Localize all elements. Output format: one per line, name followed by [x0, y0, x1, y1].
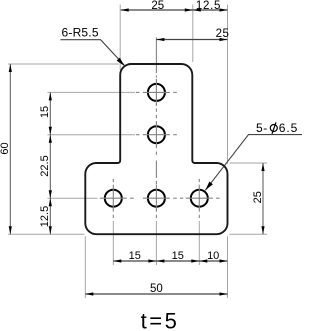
arrow left of 50 [85, 292, 93, 295]
dimension line right 25 [262, 163, 264, 234]
extension line part right edge (top dims) [227, 5, 229, 165]
extension line bottom hole1 down [112, 221, 114, 265]
arrow left of top 12.5 [193, 8, 201, 11]
diameter symbol slash [272, 122, 276, 134]
dimension chain left 15 / 22.5 / 12.5 [49, 92, 51, 234]
dimension line 60 left [9, 64, 11, 234]
dimension line top 25 and 12.5 [121, 9, 228, 11]
svg-text:5-: 5- [256, 121, 268, 135]
extension line part bottom-right corner down [227, 236, 229, 298]
arrow bottom of right 25 [261, 226, 264, 234]
dimension line second 25 [156, 39, 227, 41]
centerline column between holes [155, 161, 157, 179]
svg-text:25: 25 [151, 0, 164, 12]
svg-text:6.5: 6.5 [279, 121, 298, 135]
arrow left of bottom 15a [113, 259, 121, 262]
arrow right of 50 [220, 292, 228, 295]
arrow bottom of 15 [49, 127, 52, 135]
arrow bottom of left 12.5 [49, 226, 52, 234]
centerline cross hole bottom right [173, 179, 219, 218]
extension line row hole2 left [48, 134, 136, 136]
extension line bottom hole3 down [198, 221, 200, 265]
leader 6-R5.5 arrowhead [117, 58, 125, 67]
arrow top of right 25 [261, 163, 264, 171]
leader 6-R5.5 underline [60, 40, 124, 66]
svg-text:50: 50 [150, 283, 163, 295]
arrow right of second 25 [220, 38, 228, 41]
extension line column left edge (top dim 25) [119, 5, 121, 71]
hole mid column [148, 126, 165, 143]
part outline [85, 64, 227, 234]
hole bottom left [105, 190, 122, 207]
extension line top of 60 dim [8, 63, 119, 65]
extension line bottom of 60 dim [8, 233, 85, 235]
extension line right 25 dim top [230, 162, 268, 164]
centerline cross hole bottom left [100, 179, 134, 218]
svg-text:t=5: t=5 [141, 309, 180, 331]
svg-text:15: 15 [39, 106, 51, 118]
extension line bottom hole2 down [155, 221, 157, 265]
arrow top of 60 [9, 64, 12, 72]
centerline column dot above bottom hole [155, 181, 157, 184]
svg-text:15: 15 [172, 250, 184, 262]
centerline cross hole mid column [136, 115, 177, 155]
diameter symbol circle [270, 125, 277, 132]
svg-text:10: 10 [207, 250, 219, 262]
svg-text:60: 60 [0, 142, 11, 154]
arrow right of bottom 15b [191, 259, 199, 262]
svg-text:6-R5.5: 6-R5.5 [62, 26, 99, 40]
svg-text:25: 25 [216, 28, 230, 40]
arrow left of bottom 15b [156, 259, 164, 262]
svg-text:12.5: 12.5 [39, 206, 51, 227]
arrow top of 22.5 [49, 135, 52, 143]
arrow top of 15 [49, 92, 52, 100]
arrow left of bottom 10 [199, 259, 207, 262]
arrow right of top 12.5 [220, 8, 228, 11]
hole top column [148, 84, 165, 101]
arrow bottom of 22.5 [49, 190, 52, 198]
centerline cross hole bottom middle [143, 185, 170, 218]
arrow right of bottom 10 [220, 259, 228, 262]
svg-text:15: 15 [129, 250, 141, 262]
hole bottom right [191, 190, 208, 207]
extension line bottom hole row left [48, 197, 98, 199]
arrow bottom of 60 [9, 226, 12, 234]
arrow right of bottom 15a [148, 259, 156, 262]
centerline cross hole top column [136, 76, 177, 112]
svg-text:25: 25 [252, 191, 264, 203]
extension line row hole1 left [48, 91, 136, 93]
extension line centerline up to second 25 dim [155, 38, 157, 74]
extension line column right edge (top dims) [192, 5, 194, 63]
dimension line 50 [85, 293, 227, 295]
leader 5-dia6.5 arrowhead [205, 182, 213, 191]
extension line right 25 dim bottom [230, 233, 268, 235]
hole bottom middle [148, 190, 165, 207]
arrow top of left 12.5 [49, 198, 52, 206]
svg-text:22.5: 22.5 [39, 155, 51, 176]
arrow right of top 25 [185, 8, 193, 11]
extension line part bottom-left corner down [84, 236, 86, 298]
arrow left of second 25 [156, 38, 164, 41]
leader 5-dia6.5 underline [205, 135, 302, 191]
svg-text:12.5: 12.5 [196, 0, 221, 12]
arrow left of top 25 [121, 8, 129, 11]
dimension chain bottom 15 / 15 / 10 [113, 260, 227, 262]
